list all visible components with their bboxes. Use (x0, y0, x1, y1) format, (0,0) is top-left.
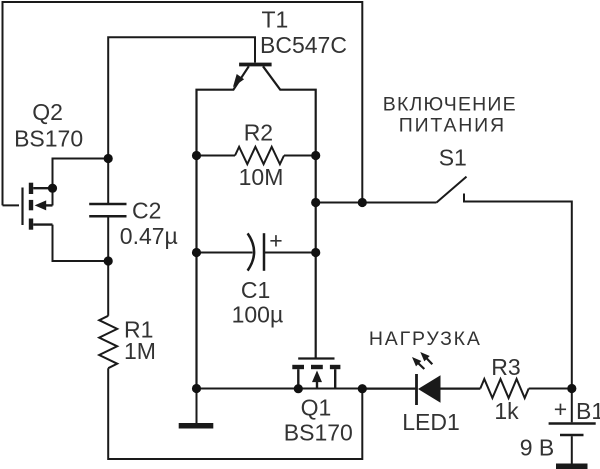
svg-text:ПИТАНИЯ: ПИТАНИЯ (399, 115, 506, 137)
svg-text:Q1: Q1 (301, 394, 332, 420)
svg-text:S1: S1 (439, 145, 467, 171)
svg-text:+: + (554, 396, 567, 422)
svg-text:R2: R2 (244, 119, 273, 145)
svg-text:R3: R3 (491, 354, 520, 380)
svg-text:10M: 10M (239, 164, 284, 190)
svg-text:BS170: BS170 (284, 420, 353, 446)
svg-text:1k: 1k (494, 398, 519, 424)
svg-text:100µ: 100µ (232, 301, 284, 327)
svg-text:BC547C: BC547C (260, 32, 347, 58)
svg-text:+: + (269, 228, 282, 254)
svg-text:1M: 1M (124, 338, 156, 364)
svg-text:C1: C1 (241, 277, 270, 303)
svg-text:B1: B1 (576, 398, 600, 424)
svg-text:LED1: LED1 (402, 409, 460, 435)
svg-text:T1: T1 (262, 7, 289, 33)
svg-text:C2: C2 (132, 197, 161, 223)
svg-text:Q2: Q2 (32, 99, 63, 125)
svg-text:НАГРУЗКА: НАГРУЗКА (369, 328, 482, 350)
svg-text:ВКЛЮЧЕНИЕ: ВКЛЮЧЕНИЕ (383, 94, 517, 116)
svg-text:9 В: 9 В (520, 435, 555, 461)
svg-text:BS170: BS170 (14, 126, 83, 152)
svg-text:0.47µ: 0.47µ (120, 223, 178, 249)
